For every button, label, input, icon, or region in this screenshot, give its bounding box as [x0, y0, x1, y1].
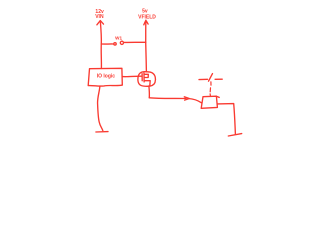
svg-text:VFIELD: VFIELD: [138, 14, 156, 20]
ground GND2: [228, 134, 241, 136]
svg-text:IO logic: IO logic: [97, 73, 116, 79]
relay K1 top-right tick: [216, 96, 219, 97]
wire VIN to jumper: [101, 43, 113, 45]
wire jumper to VFIELD: [124, 41, 146, 43]
jumper W1 pin 2: [120, 41, 123, 44]
wire MOSFET to relay: [149, 97, 186, 100]
switch S1 right terminal: [215, 78, 222, 80]
relay K1 box: [201, 96, 217, 108]
power arrow VIN: [97, 21, 104, 25]
wire MOSFET source down: [148, 86, 150, 98]
dashed link switch to relay: [209, 82, 212, 96]
wire relay to ground: [218, 104, 236, 135]
svg-text:W1: W1: [115, 35, 122, 40]
power arrow VFIELD: [144, 20, 148, 25]
svg-text:VIN: VIN: [95, 14, 104, 20]
wire IO logic to ground: [98, 86, 103, 130]
switch S1 left terminal: [199, 78, 208, 80]
switch S1 lever: [209, 74, 213, 82]
wire VFIELD vertical: [145, 20, 147, 42]
wire VIN vertical: [100, 21, 101, 69]
wire IO logic to MOSFET gate: [123, 75, 142, 78]
ground GND1: [96, 131, 108, 133]
MOSFET Q1 channel bar: [143, 73, 145, 82]
MOSFET Q1 drain leg: [144, 74, 148, 77]
MOSFET Q1 gate bar: [141, 74, 143, 81]
IO logic box: [88, 68, 122, 86]
wire arrow to relay box: [189, 99, 202, 103]
MOSFET Q1 outline: [138, 72, 156, 87]
MOSFET Q1 source leg: [144, 81, 150, 86]
wire VFIELD down to MOSFET: [145, 42, 148, 72]
jumper W1 pin 1: [114, 43, 116, 45]
arrowhead into relay: [184, 97, 189, 100]
